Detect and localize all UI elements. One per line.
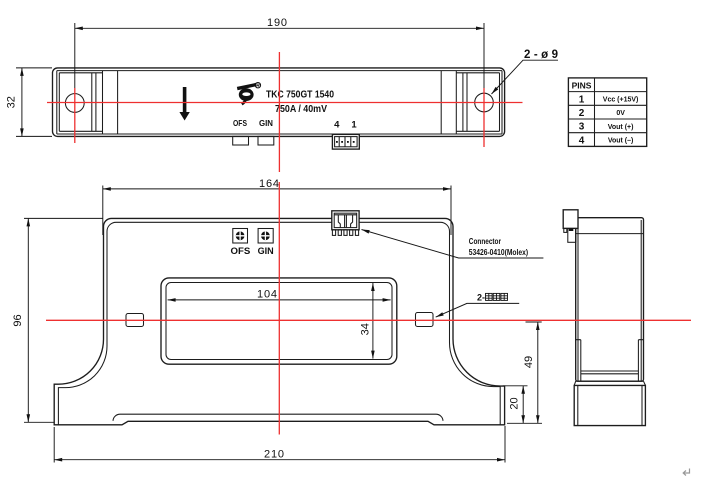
paragraph mark [683,469,689,476]
svg-text:4: 4 [579,135,585,146]
svg-text:53426-0410(Molex): 53426-0410(Molex) [469,247,528,257]
svg-text:3: 3 [579,122,585,133]
connector front view [332,211,359,236]
dimension 190 [75,17,484,90]
svg-text:34: 34 [359,323,371,335]
TKC logo [237,83,260,105]
window outer [161,278,397,364]
svg-text:Vcc (+15V): Vcc (+15V) [603,97,639,104]
svg-text:32: 32 [6,96,18,108]
side view connector [563,210,578,242]
top view left flange [59,71,117,134]
front view inner outline [58,222,500,424]
trim pot GIN [258,136,274,145]
connector top view [332,134,359,149]
svg-text:2-: 2- [477,292,485,302]
svg-text:Vout (+): Vout (+) [608,124,634,131]
side view main body [576,218,644,382]
top view right flange [441,71,499,134]
dimension 49 [507,322,542,423]
red centerline vertical top view [278,52,280,172]
dimension 164 [103,178,451,235]
side view bottom block [574,381,645,425]
top view body outline [53,68,505,136]
front view bottom inner line [113,414,443,421]
svg-text:4: 4 [334,120,340,131]
window inner [166,283,392,360]
red centerline hole left [74,88,76,143]
svg-text:750A / 40mV: 750A / 40mV [275,103,327,115]
dimension 210 [54,426,505,463]
svg-text:20: 20 [508,397,520,409]
screw OFS front [233,229,248,244]
mounting hole right [475,93,494,112]
current direction arrow [179,87,189,121]
svg-text:190: 190 [267,17,287,29]
svg-text:164: 164 [259,178,279,190]
svg-text:PINS: PINS [572,80,592,90]
svg-text:OFS: OFS [233,118,247,128]
svg-text:1: 1 [351,120,357,131]
dimension 104 [168,289,391,302]
pins table [568,78,646,146]
screw GIN front [258,229,273,244]
svg-text:OFS: OFS [231,246,251,257]
svg-text:Vout (–): Vout (–) [608,138,634,145]
side view window walls [576,340,644,382]
front view outer outline [54,218,504,424]
svg-text:1: 1 [579,94,585,105]
svg-text:210: 210 [264,449,284,461]
clip right [416,313,434,327]
mounting hole left [65,94,84,113]
label 2-insulation with leader [436,292,520,317]
dimension 34 [359,283,374,359]
svg-text:2-ø9: 2-ø9 [524,49,558,61]
svg-text:GIN: GIN [259,118,273,128]
svg-text:GIN: GIN [258,246,274,257]
dimension 20 [503,386,528,424]
svg-text:104: 104 [257,289,277,301]
svg-text:0V: 0V [616,110,625,117]
dimension 96 [12,218,103,422]
svg-text:Connector: Connector [469,236,502,246]
svg-text:TKC 750GT 1540: TKC 750GT 1540 [266,88,334,100]
trim pot OFS [233,136,249,145]
clip left [126,314,144,327]
svg-text:96: 96 [12,314,24,326]
leader connector [362,230,544,259]
svg-text:2: 2 [579,108,585,119]
red centerline vertical front [278,182,280,435]
svg-text:49: 49 [523,356,535,368]
red centerline horizontal top view [47,102,523,104]
label 2-o9 with leader [492,49,559,94]
red centerline hole right [483,88,485,147]
red centerline horizontal front and side [46,319,691,321]
dimension 32 [6,68,53,136]
